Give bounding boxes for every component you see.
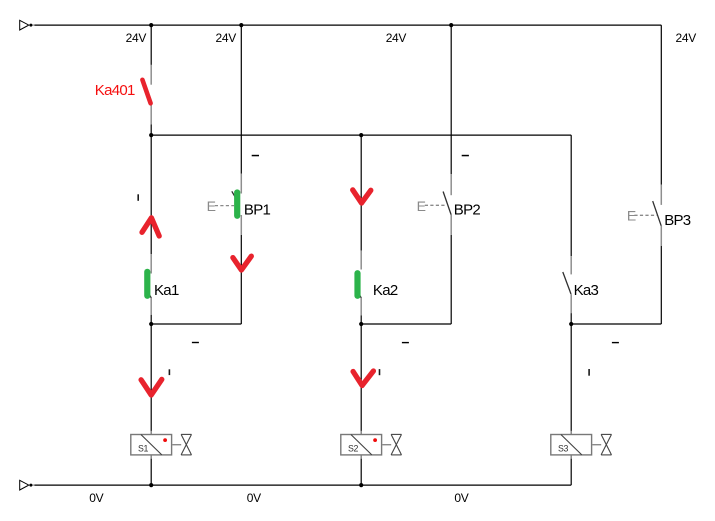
svg-text:BP1: BP1 xyxy=(244,202,271,219)
svg-text:E: E xyxy=(417,198,426,214)
svg-text:E: E xyxy=(207,198,216,214)
svg-text:Ka401: Ka401 xyxy=(95,82,135,99)
svg-text:24V: 24V xyxy=(676,31,697,45)
svg-text:Ka3: Ka3 xyxy=(574,282,599,299)
svg-text:0V: 0V xyxy=(247,491,261,505)
svg-text:Ka2: Ka2 xyxy=(373,282,398,299)
svg-text:Ka1: Ka1 xyxy=(154,282,179,299)
svg-text:24V: 24V xyxy=(386,31,407,45)
svg-text:BP3: BP3 xyxy=(664,212,691,229)
svg-text:S1: S1 xyxy=(138,444,148,454)
svg-text:0V: 0V xyxy=(89,491,103,505)
svg-text:BP2: BP2 xyxy=(454,202,481,219)
svg-text:S2: S2 xyxy=(348,444,358,454)
svg-text:S3: S3 xyxy=(558,444,568,454)
svg-text:24V: 24V xyxy=(216,31,237,45)
svg-text:0V: 0V xyxy=(454,491,468,505)
svg-text:24V: 24V xyxy=(126,31,147,45)
